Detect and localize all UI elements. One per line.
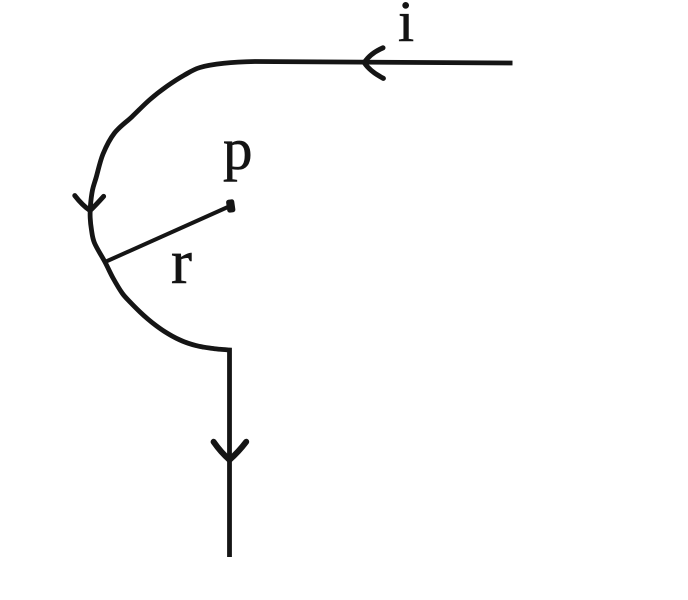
radius line r from p to arc	[105, 207, 229, 263]
label i	[398, 0, 414, 51]
point p dot	[226, 199, 236, 213]
wire (straight top segment, left semicircular bend around p, vertical bottom segment)	[90, 62, 512, 558]
label p	[223, 120, 253, 179]
current arrow on arc (pointing down)	[75, 196, 104, 211]
current arrow on bottom vertical wire (pointing down)	[214, 442, 247, 460]
label r	[171, 231, 192, 294]
current arrow on top wire (pointing left)	[364, 48, 383, 79]
